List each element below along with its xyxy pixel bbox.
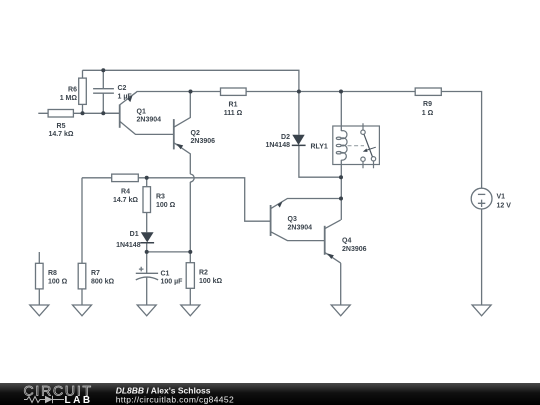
svg-text:Q3: Q3 bbox=[288, 216, 297, 223]
junction R4 / R3 top bbox=[145, 176, 149, 180]
junction Q1 collector / R1 / Q2 collector bbox=[189, 90, 193, 94]
capacitor C1 (polarized) bbox=[136, 267, 158, 280]
logo squiggle resistor + diode bbox=[24, 396, 64, 403]
svg-text:1N4148: 1N4148 bbox=[116, 242, 141, 249]
svg-text:14.7 kΩ: 14.7 kΩ bbox=[48, 131, 73, 138]
svg-text:1 µF: 1 µF bbox=[118, 94, 133, 101]
svg-text:2N3904: 2N3904 bbox=[137, 117, 162, 124]
wire R1 to R9 to V1 bbox=[246, 92, 482, 189]
resistor R1 bbox=[221, 88, 247, 95]
wire D2 branch bbox=[299, 92, 341, 178]
svg-text:100 µF: 100 µF bbox=[161, 279, 184, 286]
svg-text:R5: R5 bbox=[57, 123, 66, 130]
svg-text:12 V: 12 V bbox=[497, 203, 512, 210]
resistor R5 bbox=[48, 110, 73, 118]
wire Q3 collector to relay node bbox=[271, 199, 341, 209]
junction D2 anode / R1 line bbox=[297, 90, 301, 94]
wire D1 bottom to R2 top junction bbox=[147, 243, 191, 252]
svg-text:1N4148: 1N4148 bbox=[265, 142, 290, 149]
svg-text:R4: R4 bbox=[121, 189, 130, 196]
ground (C1) bbox=[137, 305, 156, 316]
wire Q4 collector diagonal bbox=[325, 220, 341, 229]
svg-text:D2: D2 bbox=[281, 134, 290, 141]
svg-text:C1: C1 bbox=[161, 271, 170, 278]
svg-text:V1: V1 bbox=[497, 194, 506, 201]
resistor R3 bbox=[143, 187, 151, 213]
wire R3 leads bbox=[146, 178, 148, 232]
svg-text:100 Ω: 100 Ω bbox=[48, 279, 68, 286]
wire V1 bottom to ground bbox=[481, 209, 483, 305]
wire hop arc at (190,178) bbox=[190, 174, 194, 182]
svg-text:LAB: LAB bbox=[65, 395, 93, 405]
wire R7 vertical bbox=[81, 178, 83, 305]
wire Q1 collector horizontal to R1 line bbox=[120, 92, 221, 105]
svg-text:2N3904: 2N3904 bbox=[288, 225, 313, 232]
ground (Q4) bbox=[331, 305, 350, 316]
junction R2 top / Q2 emitter line bbox=[188, 250, 192, 254]
svg-text:100 Ω: 100 Ω bbox=[156, 202, 176, 209]
footer bar bbox=[0, 383, 540, 405]
wire Q4 emitter diagonal bbox=[325, 252, 341, 263]
svg-text:R3: R3 bbox=[156, 194, 165, 201]
resistor R8 bbox=[36, 263, 44, 289]
resistor R4 bbox=[112, 174, 139, 182]
svg-text:1 MΩ: 1 MΩ bbox=[60, 95, 78, 102]
wire Q2 emitter down with hop over R4 wire bbox=[174, 143, 191, 263]
ground (R2) bbox=[181, 305, 200, 316]
svg-text:111 Ω: 111 Ω bbox=[224, 110, 243, 117]
junction Q3 collector / Q4 collector line bbox=[339, 197, 343, 201]
svg-text:100 kΩ: 100 kΩ bbox=[199, 278, 223, 285]
svg-text:Q2: Q2 bbox=[191, 130, 200, 137]
svg-text:RLY1: RLY1 bbox=[311, 144, 328, 151]
wire R2 bottom to ground bbox=[189, 288, 191, 305]
junction relay coil bottom / D2 cathode line bbox=[339, 175, 343, 179]
transistor Q3 bbox=[271, 201, 283, 236]
wire R6 stubs bbox=[82, 70, 84, 113]
diode D2 bbox=[292, 135, 306, 146]
svg-text:2N3906: 2N3906 bbox=[191, 138, 216, 145]
wire R8 stubs bbox=[38, 252, 40, 305]
wire Q4 emitter to ground bbox=[340, 263, 342, 305]
svg-text:D1: D1 bbox=[130, 231, 139, 238]
junction C2 top / supply rail bbox=[101, 68, 105, 72]
svg-text:C2: C2 bbox=[118, 85, 127, 92]
junction C2 bottom / Q1 base line bbox=[101, 111, 105, 115]
svg-text:R2: R2 bbox=[199, 270, 208, 277]
ground (V1) bbox=[472, 305, 491, 316]
resistor R6 bbox=[79, 78, 87, 104]
relay RLY1 bbox=[333, 123, 380, 168]
wire R4 line from R7 corner to Q3 base bbox=[82, 178, 271, 221]
svg-text:http://circuitlab.com/cg84452: http://circuitlab.com/cg84452 bbox=[116, 395, 234, 405]
wire top rail from R6 top to corner above D2 bbox=[83, 70, 299, 91]
resistor R2 bbox=[186, 263, 194, 289]
junction D1 cathode / C1 top bbox=[145, 250, 149, 254]
svg-text:800 kΩ: 800 kΩ bbox=[91, 279, 115, 286]
svg-text:R1: R1 bbox=[229, 102, 238, 109]
svg-text:Q4: Q4 bbox=[342, 238, 351, 245]
svg-text:14.7 kΩ: 14.7 kΩ bbox=[113, 197, 138, 204]
wire relay coil top lead bbox=[340, 92, 342, 132]
svg-text:Q1: Q1 bbox=[137, 109, 146, 116]
svg-text:2N3906: 2N3906 bbox=[342, 246, 367, 253]
wire Q3 emitter to Q4 base bbox=[271, 232, 325, 241]
wire C1 leads bbox=[146, 252, 148, 305]
transistor Q4 bbox=[325, 226, 334, 259]
resistor R7 bbox=[78, 263, 86, 289]
junction relay coil top / R9 line bbox=[339, 90, 343, 94]
ground (R7) bbox=[73, 305, 92, 316]
svg-text:R8: R8 bbox=[48, 270, 57, 277]
wire Q1 emitter to Q2 base bbox=[120, 121, 174, 134]
diode D1 bbox=[140, 232, 154, 243]
svg-text:1 Ω: 1 Ω bbox=[422, 110, 434, 117]
junction R6 bottom / R5 line bbox=[81, 111, 85, 115]
ground (R8) bbox=[30, 305, 49, 316]
transistor Q2 bbox=[174, 119, 183, 149]
wire C2 leads bbox=[102, 70, 104, 113]
transistor Q1 bbox=[103, 95, 132, 128]
resistor R9 bbox=[415, 88, 441, 95]
svg-text:R9: R9 bbox=[423, 101, 432, 108]
wire relay coil bottom lead down to Q4 collector bbox=[340, 160, 342, 220]
svg-text:R7: R7 bbox=[91, 270, 100, 277]
voltage source V1 bbox=[471, 188, 492, 209]
wire R5 line to Q1 base bbox=[38, 112, 119, 114]
wire Q2 collector up to R1 line bbox=[174, 92, 191, 128]
svg-text:R6: R6 bbox=[68, 87, 77, 94]
capacitor C2 bbox=[93, 89, 114, 94]
